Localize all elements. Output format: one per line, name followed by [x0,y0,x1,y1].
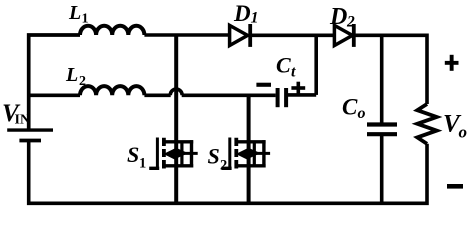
inductor L1 [80,26,144,35]
wire L1 to D1 [144,33,228,37]
inductor L2 [80,86,144,95]
wire D2 to output corner and down to load [354,35,427,104]
wire load bottom lead and bottom rail [29,142,427,203]
svg-text:1: 1 [139,156,146,172]
wire hop over S1 drain [170,89,182,95]
capacitor Ct right plate [284,88,288,107]
wire hop to Ct left plate [182,94,276,98]
svg-text:1: 1 [251,10,259,27]
svg-text:L: L [65,64,78,86]
wire Ct right plate to riser [286,93,316,97]
minus sign Ct [256,83,271,87]
wire D1 to D2 [250,33,334,37]
wire Co branch upper [380,35,384,122]
svg-text:2: 2 [346,14,355,31]
wire Ct riser to top wire [314,35,318,95]
svg-text:t: t [291,64,296,81]
wire S2 drain-source rail [247,95,251,203]
minus sign output [447,184,463,189]
capacitor Co top plate [367,122,397,126]
diode D1 [230,24,251,47]
svg-text:IN: IN [15,113,31,128]
svg-text:o: o [358,105,366,122]
wire left rail and top wire [29,35,80,129]
wire L2 to hop [144,94,170,98]
wire S1 drain-source rail [174,35,178,203]
svg-text:D: D [233,1,251,26]
svg-text:S: S [208,144,220,169]
resistor Vo zigzag [417,104,436,144]
svg-text:2: 2 [220,158,227,174]
svg-text:C: C [342,95,358,120]
svg-text:L: L [68,2,81,24]
wire L2 rail from left [29,94,80,98]
svg-text:D: D [329,4,347,30]
battery VIN bottom plate [19,139,41,143]
plus sign output [445,61,459,65]
battery VIN top plate [7,128,53,131]
capacitor Ct left plate [276,88,280,107]
svg-text:S: S [127,142,139,167]
wire Co branch lower [380,136,384,203]
svg-text:2: 2 [79,74,86,89]
transistor S1 [149,138,198,171]
capacitor Co bottom plate [367,132,397,136]
diode D2 [334,24,353,47]
svg-text:1: 1 [82,12,89,27]
svg-text:o: o [459,123,468,142]
plus sign Ct [291,86,305,90]
svg-text:C: C [276,53,291,78]
transistor S2 [222,138,271,171]
